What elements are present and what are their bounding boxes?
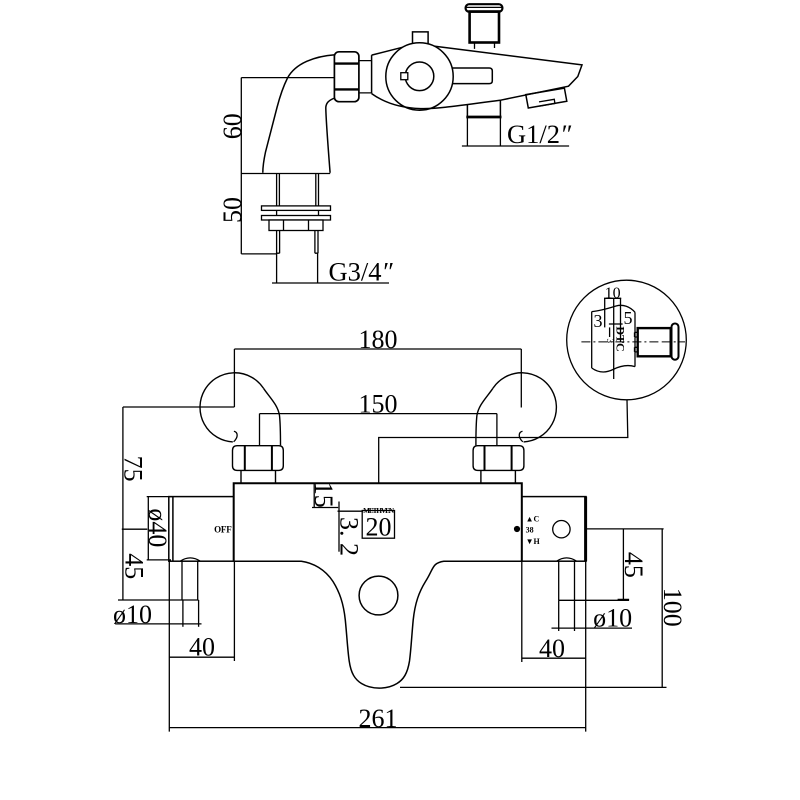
right wall leg [557,558,577,600]
detail wall section [592,298,635,379]
left end cap [169,497,234,562]
dim d10 left [115,600,201,627]
diverter outlet below body [467,100,500,116]
knob inner circle [405,62,434,91]
svg-text:▼H: ▼H [526,537,541,546]
main body front [234,483,522,561]
svg-text:45: 45 [119,553,148,579]
faucet body side outline [372,46,582,101]
svg-text:150: 150 [359,390,398,419]
svg-text:5: 5 [624,308,633,328]
threaded shank top section [277,174,319,221]
threaded rod [277,231,318,284]
detail centerline [581,341,685,343]
left elbow front [200,373,280,446]
dim 45 right [559,529,664,600]
left wall leg [180,558,200,600]
svg-text:ø10: ø10 [113,600,152,629]
shower outlet body (bold) [470,12,499,43]
svg-text:METHVEN: METHVEN [363,507,395,515]
svg-text:100: 100 [658,588,687,627]
svg-text:261: 261 [359,704,398,733]
right cap hole [553,521,570,538]
washer 1 [262,206,331,211]
leader to detail [379,400,628,483]
svg-text:3: 3 [605,339,615,344]
svg-text:ø10: ø10 [593,604,632,633]
svg-text:60: 60 [218,113,247,139]
svg-text:3. 2: 3. 2 [335,517,364,556]
svg-text:75: 75 [119,456,148,482]
svg-text:15: 15 [309,482,338,508]
svg-text:50: 50 [218,197,247,223]
svg-text:OFF: OFF [214,525,232,535]
handle lever [451,68,492,84]
logo box 20 [362,511,394,539]
dim 100 right [400,529,667,688]
svg-text:10: 10 [605,285,621,302]
dim 40 right [522,561,586,731]
svg-text:3: 3 [594,311,603,331]
svg-text:G3/4″: G3/4″ [329,257,394,287]
spout end aerator [526,88,567,108]
svg-text:ø40: ø40 [143,508,172,547]
svg-text:40: 40 [189,633,215,662]
dim d10 right [552,600,633,631]
right elbow front (mirror) [476,373,556,446]
svg-text:45: 45 [619,552,648,578]
right end cap [522,497,586,562]
annotation 15 [312,483,338,507]
svg-text:180: 180 [359,325,398,354]
shower outlet neck [475,43,495,49]
svg-text:20: 20 [366,513,392,542]
left inlet nut front [233,446,284,484]
body bottom with U dip [234,561,522,688]
override button notch [401,73,408,80]
G1/2 leader [462,117,569,146]
base bottom line [241,173,330,175]
dim 261 [169,727,585,729]
elbow leg side outline [263,55,335,173]
dim d40 [147,497,172,560]
dim 50 [241,174,276,254]
nut collar to body [359,61,372,93]
knob circle [386,43,453,110]
dim 45 left [118,529,199,600]
svg-text:38: 38 [526,526,534,535]
dim 150 [260,414,497,446]
dim 75 [122,407,235,529]
locknut [269,220,323,231]
dim 40 left [169,561,234,731]
body bottom curve over knob [372,94,500,109]
dim 60 [241,78,334,174]
svg-text:DTC: DTC [614,326,628,351]
G3/4 leader [272,282,389,284]
svg-text:▲C: ▲C [526,515,540,524]
svg-text:40: 40 [539,634,565,663]
detail check valve [635,324,679,360]
shower outlet cap (bold) [466,4,503,12]
top stub [413,32,429,47]
right inlet nut front [473,446,524,484]
central outlet circle [359,576,398,615]
hex nut side view [334,52,359,102]
annotation 3.2 [338,502,364,552]
svg-text:G1/2″: G1/2″ [507,119,572,149]
DETAIL CIRCLE [567,280,687,400]
dim 180 [234,349,521,408]
body dot [514,526,520,532]
washer 2 [262,216,331,221]
